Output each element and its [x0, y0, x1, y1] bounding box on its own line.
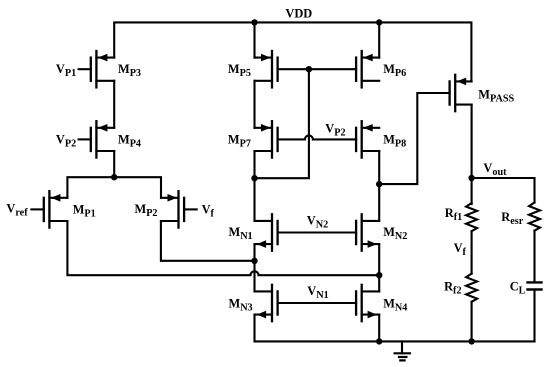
wire MP4 drain to tail node: [113, 151, 115, 177]
wire diff pair tail split: [67, 177, 161, 198]
node MP7 drain: [251, 175, 257, 181]
resistor Rf1: [466, 203, 477, 231]
node amp output: [376, 181, 382, 187]
node VDD-MP6: [376, 19, 382, 25]
wire MP8 drain to MN2 drain: [378, 151, 380, 221]
transistor MN2: [356, 214, 379, 250]
transistor MP8: [356, 121, 379, 157]
transistor MP5: [255, 51, 278, 87]
wire VDD rail: [114, 22, 471, 81]
wire MN4 source to ground rail: [378, 315, 380, 342]
node diff pair tail: [111, 174, 117, 180]
node VDD-MP5: [251, 19, 257, 25]
svg-text:VDD: VDD: [285, 6, 312, 20]
transistor MP6: [356, 51, 379, 87]
wire MP7 drain node to mirror gates: [255, 69, 309, 178]
wire Rf2 to ground rail: [471, 302, 473, 342]
wire MP2 drain to MN1/MN3 node: [161, 221, 255, 261]
node MP1 drain join: [376, 272, 382, 278]
wire Vout to Resr: [472, 178, 535, 203]
node MP2 drain join: [251, 258, 257, 264]
wire Rf1 to Rf2 (Vf node): [471, 231, 473, 273]
wire MPASS drain to Vout node and Rf1: [471, 105, 473, 205]
node MN4 source ground: [376, 338, 382, 344]
node Vout: [468, 175, 474, 181]
wire ground rail: [255, 315, 535, 342]
wire MP3 drain to MP4 source: [113, 81, 115, 128]
wire Resr to CL: [533, 231, 535, 283]
transistor MP3: [79, 51, 115, 87]
ground symbol: [395, 341, 410, 360]
wire VN2 gate net MN1-MN2: [278, 231, 357, 233]
wire VP2 gate net MP7-MP8 (hop over vertical): [278, 135, 357, 139]
wire MP5-MP6 gate net: [278, 68, 357, 70]
transistor MN4: [356, 285, 379, 321]
wire MP1 drain to MN2/MN4 node (hop over MN1 column): [67, 221, 379, 275]
wire amp output to MPASS gate: [379, 93, 449, 184]
resistor Resr: [529, 203, 540, 231]
wire MN1 source to MN3 drain: [253, 244, 255, 291]
node mirror gate bias: [306, 66, 312, 72]
wire CL to ground rail: [533, 290, 535, 342]
node Rf2 ground: [468, 338, 474, 344]
transistor MP7: [255, 121, 278, 157]
wire VDD drop to MP5: [253, 22, 255, 57]
transistor MPASS: [450, 75, 472, 111]
wire VDD drop to MP6: [378, 22, 380, 57]
wire MN2 source to MN4 drain: [378, 244, 380, 291]
transistor MP2: [161, 191, 197, 227]
transistor MP4: [79, 121, 115, 157]
wire MP5 drain to MP7 source: [253, 81, 255, 128]
resistor Rf2: [466, 274, 477, 302]
wire VN1 gate net MN3-MN4: [278, 302, 357, 304]
capacitor CL: [528, 282, 542, 289]
transistor MN3: [255, 285, 278, 321]
wire MP7 drain down to MN1 drain: [253, 178, 255, 221]
transistor MP1: [31, 191, 67, 227]
transistor MN1: [255, 214, 278, 250]
